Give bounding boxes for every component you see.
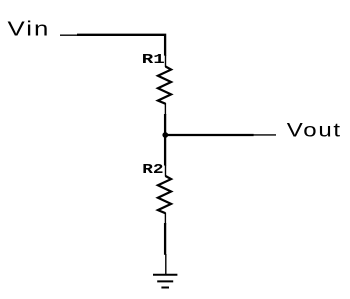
svg-text:R1: R1 bbox=[142, 52, 165, 68]
svg-text:Vout: Vout bbox=[287, 119, 342, 141]
svg-text:Vin: Vin bbox=[8, 17, 51, 40]
svg-text:R2: R2 bbox=[142, 161, 163, 177]
